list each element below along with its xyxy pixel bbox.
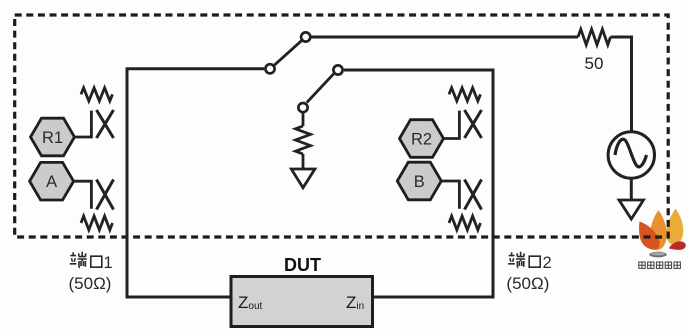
wire: lower contact to shunt resistor: [302, 113, 305, 126]
hexagon R2: [400, 120, 444, 158]
wire: shunt resistor to ground: [302, 154, 305, 169]
svg-text:2: 2: [543, 254, 552, 272]
switch 2 throw arm (diagonal down-left): [307, 74, 334, 103]
logo flame petal left (orange-red): [639, 222, 660, 250]
logo flame swoosh (red): [669, 241, 686, 250]
wire: B stub: [441, 181, 459, 209]
X mark (B path open): [465, 180, 482, 210]
switch contact circle (upper): [301, 32, 310, 41]
svg-text:50: 50: [585, 54, 604, 73]
dashed border box: [15, 15, 669, 237]
X mark (R2 path open): [465, 110, 482, 138]
svg-text:DUT: DUT: [284, 255, 321, 275]
glyph kou: [529, 256, 540, 267]
source sine wave: [615, 139, 647, 167]
svg-text:1: 1: [104, 254, 113, 272]
svg-text:R1: R1: [42, 129, 63, 147]
resistor (right top zigzag): [449, 88, 480, 101]
svg-text:A: A: [46, 173, 57, 191]
logo text (5 CJK glyph blobs): [639, 262, 681, 268]
wire: top rail from upper contact to source resistor: [312, 36, 579, 39]
hexagon R1: [31, 118, 75, 156]
svg-text:(50Ω): (50Ω): [506, 274, 549, 293]
DUT box: [231, 277, 373, 327]
X mark (A path open): [97, 180, 114, 210]
resistor (left bottom zigzag): [81, 216, 112, 230]
hexagon B: [397, 162, 441, 200]
X mark (R1 path open): [97, 110, 114, 138]
logo flame petal right (amber): [666, 209, 683, 246]
switch throw arm (diagonal up): [274, 41, 301, 65]
wire: inner box right side (switch to DUT): [344, 70, 493, 297]
wire: R2 stub: [442, 111, 459, 139]
glyph duan (li radical): [70, 252, 77, 263]
resistor 50 (horizontal zigzag, top right): [578, 29, 611, 45]
logo base ellipse: [649, 252, 666, 258]
label port 1 (hand-drawn CJK): [70, 252, 102, 268]
ground (open triangle): [291, 169, 315, 188]
source U1 (sine generator circle): [608, 132, 654, 178]
glyph duan (shan): [517, 252, 524, 257]
resistor (right bottom zigzag): [449, 216, 480, 230]
shunt resistor (vertical zigzag): [296, 126, 311, 154]
glyph kou: [91, 256, 102, 267]
svg-text:R2: R2: [411, 131, 432, 149]
switch 2 pole contact circle (right): [333, 65, 342, 74]
switch 2 contact circle (lower): [298, 103, 307, 112]
wire: source to ground: [630, 178, 633, 200]
wire: resistor 50 to source: [611, 37, 632, 132]
ground (source, open triangle): [619, 200, 644, 219]
glyph duan (shan): [79, 252, 86, 257]
wire: R1 stub: [75, 111, 92, 137]
hexagon A: [30, 162, 74, 200]
switch pole contact circle (left): [265, 64, 274, 73]
glyph duan (er): [516, 259, 525, 267]
wire: inner box left side (top-left corner to DUT): [127, 69, 264, 297]
glyph duan (li radical): [508, 252, 515, 263]
wire: A stub: [74, 181, 92, 209]
svg-text:B: B: [414, 173, 425, 191]
resistor (left top zigzag): [81, 88, 112, 101]
glyph duan (er): [78, 259, 87, 267]
logo flame petal center (orange): [650, 210, 667, 250]
svg-text:(50Ω): (50Ω): [69, 274, 112, 293]
label port 2 (hand-drawn CJK): [508, 252, 540, 268]
